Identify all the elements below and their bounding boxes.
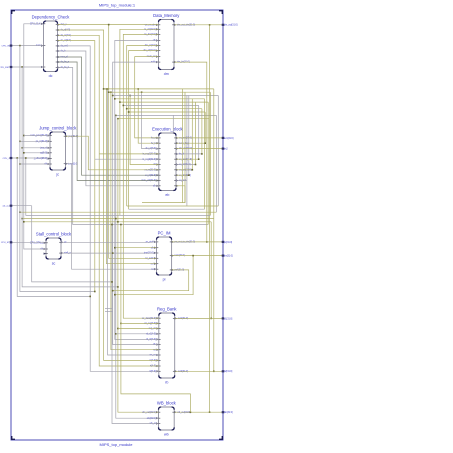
svg-text:WB_block: WB_block [157,401,177,406]
svg-text:Reg_Bank: Reg_Bank [157,307,177,312]
svg-text:pi: pi [163,278,166,282]
svg-text:sc: sc [52,262,56,266]
svg-text:wb: wb [164,433,169,437]
svg-text:PC_IM: PC_IM [158,231,171,236]
svg-text:CPU_STALL: CPU_STALL [30,241,44,244]
svg-text:jc: jc [55,173,59,177]
svg-text:Dependency_Check: Dependency_Check [32,15,71,20]
svg-text:dm: dm [164,72,169,76]
svg-text:dc: dc [49,74,53,78]
svg-text:CPU_IN: CPU_IN [1,45,9,47]
svg-text:o1[31:0]: o1[31:0] [224,318,233,320]
svg-text:rb: rb [165,381,168,385]
svg-text:MIPS_top_module:1: MIPS_top_module:1 [99,3,136,8]
svg-text:ex2: ex2 [224,149,228,151]
svg-text:o2[31:0]: o2[31:0] [224,371,233,373]
svg-text:dm_out[31:0]: dm_out[31:0] [224,24,238,27]
svg-text:pc[31:0]: pc[31:0] [224,242,233,244]
svg-text:CPU_J: CPU_J [3,158,10,160]
svg-text:Data_Memory: Data_Memory [153,13,180,18]
svg-text:wb[31:0]: wb[31:0] [224,412,233,414]
svg-text:MIPS_top_module: MIPS_top_module [100,442,134,447]
svg-text:wb_out: wb_out [2,205,9,208]
svg-text:CPU_RST: CPU_RST [0,67,10,69]
svg-text:CPU_ST: CPU_ST [1,242,10,244]
svg-text:ins[31:0]: ins[31:0] [224,256,233,258]
svg-text:Jump_control_block: Jump_control_block [39,126,77,131]
svg-text:eb: eb [165,193,169,197]
svg-text:ex1[31:0]: ex1[31:0] [224,138,234,140]
svg-text:Execution_block: Execution_block [152,127,183,132]
svg-text:Stall_control_block: Stall_control_block [36,232,72,237]
